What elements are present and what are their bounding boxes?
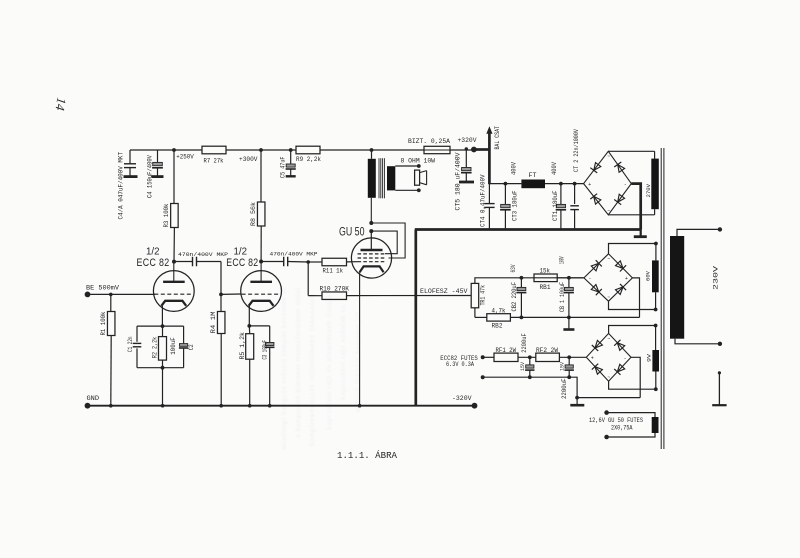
svg-text:R1 100k: R1 100k (100, 311, 107, 335)
svg-text:R10 270K: R10 270K (320, 286, 350, 293)
svg-text:C1 22n: C1 22n (127, 336, 134, 352)
svg-text:R7 27k: R7 27k (204, 157, 224, 164)
svg-text:470n/400V MKP: 470n/400V MKP (270, 251, 318, 258)
svg-text:1.1.1. ÁBRA: 1.1.1. ÁBRA (337, 450, 397, 461)
svg-text:GU 50: GU 50 (339, 227, 365, 239)
svg-text:C2: C2 (188, 344, 195, 350)
svg-text:erősítő fokozat bemenet jel: erősítő fokozat bemenet jel (353, 312, 362, 412)
svg-text:~: ~ (607, 209, 610, 214)
svg-text:1/2: 1/2 (146, 246, 160, 258)
svg-text:GND: GND (87, 395, 100, 402)
svg-text:6.3V 0.3A: 6.3V 0.3A (446, 361, 474, 368)
svg-text:15V: 15V (520, 361, 526, 371)
svg-text:~: ~ (607, 376, 610, 381)
svg-text:CB 1 100uF: CB 1 100uF (559, 282, 566, 312)
svg-text:~: ~ (607, 337, 610, 342)
svg-text:270V: 270V (645, 184, 652, 198)
svg-text:R4 1M: R4 1M (210, 311, 217, 333)
svg-text:CT3 180uF: CT3 180uF (511, 190, 518, 221)
svg-text:+320V: +320V (458, 137, 477, 144)
svg-text:2200uF: 2200uF (521, 333, 528, 353)
svg-text:a hangszóró kimenet transzform: a hangszóró kimenet transzformátor oldal (293, 288, 302, 438)
svg-text:12,6V GU 50 FUTES: 12,6V GU 50 FUTES (589, 417, 643, 424)
svg-text:400V: 400V (551, 162, 558, 175)
svg-text:230V: 230V (712, 265, 719, 290)
svg-text:R8 56k: R8 56k (250, 202, 257, 226)
svg-text:kapcsolási rajz és alkatrészek: kapcsolási rajz és alkatrészek listája (324, 294, 333, 430)
svg-text:+: + (588, 182, 591, 188)
svg-text:CT4 0,47uF/400V: CT4 0,47uF/400V (480, 174, 487, 227)
svg-text:BE 500mV: BE 500mV (86, 284, 119, 291)
svg-text:RF1 2W: RF1 2W (496, 347, 517, 354)
svg-text:RF2 2W: RF2 2W (536, 347, 558, 354)
svg-text:400V: 400V (510, 162, 517, 175)
svg-text:-: - (588, 276, 591, 282)
svg-text:+250V: +250V (176, 154, 194, 161)
svg-text:60V: 60V (644, 271, 651, 281)
svg-text:63V: 63V (510, 264, 517, 272)
svg-text:C5 47uF: C5 47uF (279, 156, 286, 178)
svg-text:CT5 180 uF/400V: CT5 180 uF/400V (454, 152, 461, 210)
svg-text:R2 2,2k: R2 2,2k (152, 337, 159, 359)
svg-text:RB2: RB2 (492, 323, 503, 330)
svg-text:RB1: RB1 (540, 284, 551, 291)
svg-text:-: - (624, 356, 627, 362)
svg-text:R3 100k: R3 100k (163, 203, 170, 227)
svg-text:9V: 9V (646, 353, 653, 362)
svg-text:100V: 100V (558, 256, 565, 264)
svg-text:ECC 82: ECC 82 (137, 257, 170, 269)
svg-text:8 OHM 10W: 8 OHM 10W (401, 158, 436, 165)
svg-text:BIZT. 0,25A: BIZT. 0,25A (408, 138, 450, 145)
svg-text:2200uF: 2200uF (561, 378, 568, 399)
svg-text:BAL CSAT: BAL CSAT (494, 126, 501, 150)
svg-text:~: ~ (607, 296, 610, 301)
svg-text:15k: 15k (540, 268, 551, 275)
svg-text:CT1 180uF: CT1 180uF (552, 190, 559, 221)
svg-text:C4 150uF/400V: C4 150uF/400V (147, 155, 154, 198)
svg-text:FT: FT (529, 172, 537, 179)
svg-text:ELOFESZ -45V: ELOFESZ -45V (420, 288, 468, 295)
svg-text:CT 2 22n/1000V: CT 2 22n/1000V (573, 129, 580, 172)
svg-text:ECC 82: ECC 82 (226, 257, 258, 269)
svg-text:R5 1,2k: R5 1,2k (239, 332, 246, 360)
svg-text:TR1 47k: TR1 47k (479, 285, 486, 306)
svg-text:+300V: +300V (239, 156, 258, 163)
svg-text:R11 1k: R11 1k (323, 268, 344, 275)
svg-text:470n/400V MKP: 470n/400V MKP (178, 251, 228, 258)
svg-text:100uF: 100uF (170, 337, 177, 355)
svg-text:1/2: 1/2 (234, 246, 248, 258)
svg-text:-320V: -320V (452, 395, 472, 402)
svg-text:CB2 220uF: CB2 220uF (511, 282, 518, 312)
svg-text:-: - (624, 182, 627, 188)
svg-text:C4/A 047uF/400V MKT: C4/A 047uF/400V MKT (117, 152, 124, 220)
svg-text:hangfrekvenciás teljesítmény f: hangfrekvenciás teljesítmény fokozatok (307, 294, 316, 446)
svg-text:~: ~ (607, 155, 610, 160)
svg-text:2X0,75A: 2X0,75A (611, 425, 633, 432)
svg-text:+: + (591, 356, 594, 362)
svg-text:~: ~ (607, 257, 610, 262)
svg-text:15V: 15V (559, 361, 565, 371)
svg-text:4,7k: 4,7k (492, 307, 506, 314)
svg-text:+: + (625, 276, 628, 282)
svg-text:C3 100uF: C3 100uF (261, 340, 268, 360)
svg-text:R9 2,2k: R9 2,2k (296, 156, 321, 163)
svg-text:minőségi hangzás erősítő lámpá: minőségi hangzás erősítő lámpás készülék… (279, 288, 288, 450)
svg-text:kapcsolási rajz oldalak sz: kapcsolási rajz oldalak sz (338, 304, 347, 400)
